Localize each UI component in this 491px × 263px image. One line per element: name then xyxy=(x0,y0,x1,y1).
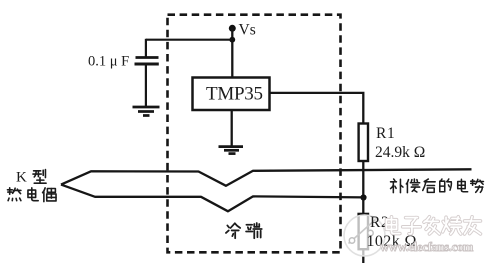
svg-text:R1: R1 xyxy=(376,125,395,142)
svg-text:24.9k Ω: 24.9k Ω xyxy=(375,144,425,161)
svg-text:Vs: Vs xyxy=(239,22,256,39)
svg-text:K: K xyxy=(16,170,27,186)
node Vs xyxy=(229,22,256,39)
dashed enclosure (cold junction compensation block) xyxy=(168,15,341,253)
wire Vs to TMP35 xyxy=(231,28,233,79)
watermark logo circle xyxy=(344,215,385,256)
label compensated potential (补偿后的电势) xyxy=(391,179,484,193)
value label 24.9k ohm xyxy=(375,144,425,161)
value label 0.1 uF xyxy=(88,54,129,70)
temperature sensor U1 TMP35 xyxy=(193,78,270,111)
svg-text:TMP35: TMP35 xyxy=(206,84,263,105)
resistor R1 xyxy=(359,124,368,162)
resistor R2 xyxy=(359,214,368,249)
node A junction dot (R1/R2/thermocouple minus lead) xyxy=(360,194,366,200)
watermark url www.elecfans.com xyxy=(380,240,474,254)
ground (below TMP35) xyxy=(219,147,244,154)
svg-text:0.1 μ F: 0.1 μ F xyxy=(88,54,129,70)
label cold junction (冷端) xyxy=(226,223,262,238)
wire C1 to Vs node xyxy=(146,39,232,41)
watermark text (电子发烧友) xyxy=(386,217,480,234)
ground (below C1) xyxy=(133,107,160,116)
value label 102k ohm xyxy=(367,233,417,250)
wire R2 to bottom edge xyxy=(362,249,364,263)
capacitor C1 0.1uF xyxy=(135,39,159,106)
thermocouple TC1 upper lead (output wire) xyxy=(61,169,472,186)
wire TMP35 GND pin to ground xyxy=(231,110,233,146)
wire TMP35 output to R1 xyxy=(270,93,364,124)
label R1 xyxy=(376,125,395,142)
wire node A to R2 xyxy=(362,198,364,215)
label R2 xyxy=(370,214,389,231)
wire R1 to node A (crosses upper lead) xyxy=(362,161,364,198)
svg-text:www.elecfans.com: www.elecfans.com xyxy=(380,240,474,254)
junction dot (Vs / C1 node) xyxy=(229,37,235,43)
label K-type thermocouple (K型 热电偶) xyxy=(7,170,56,202)
thermocouple TC1 lower lead (to node A) xyxy=(61,185,364,212)
